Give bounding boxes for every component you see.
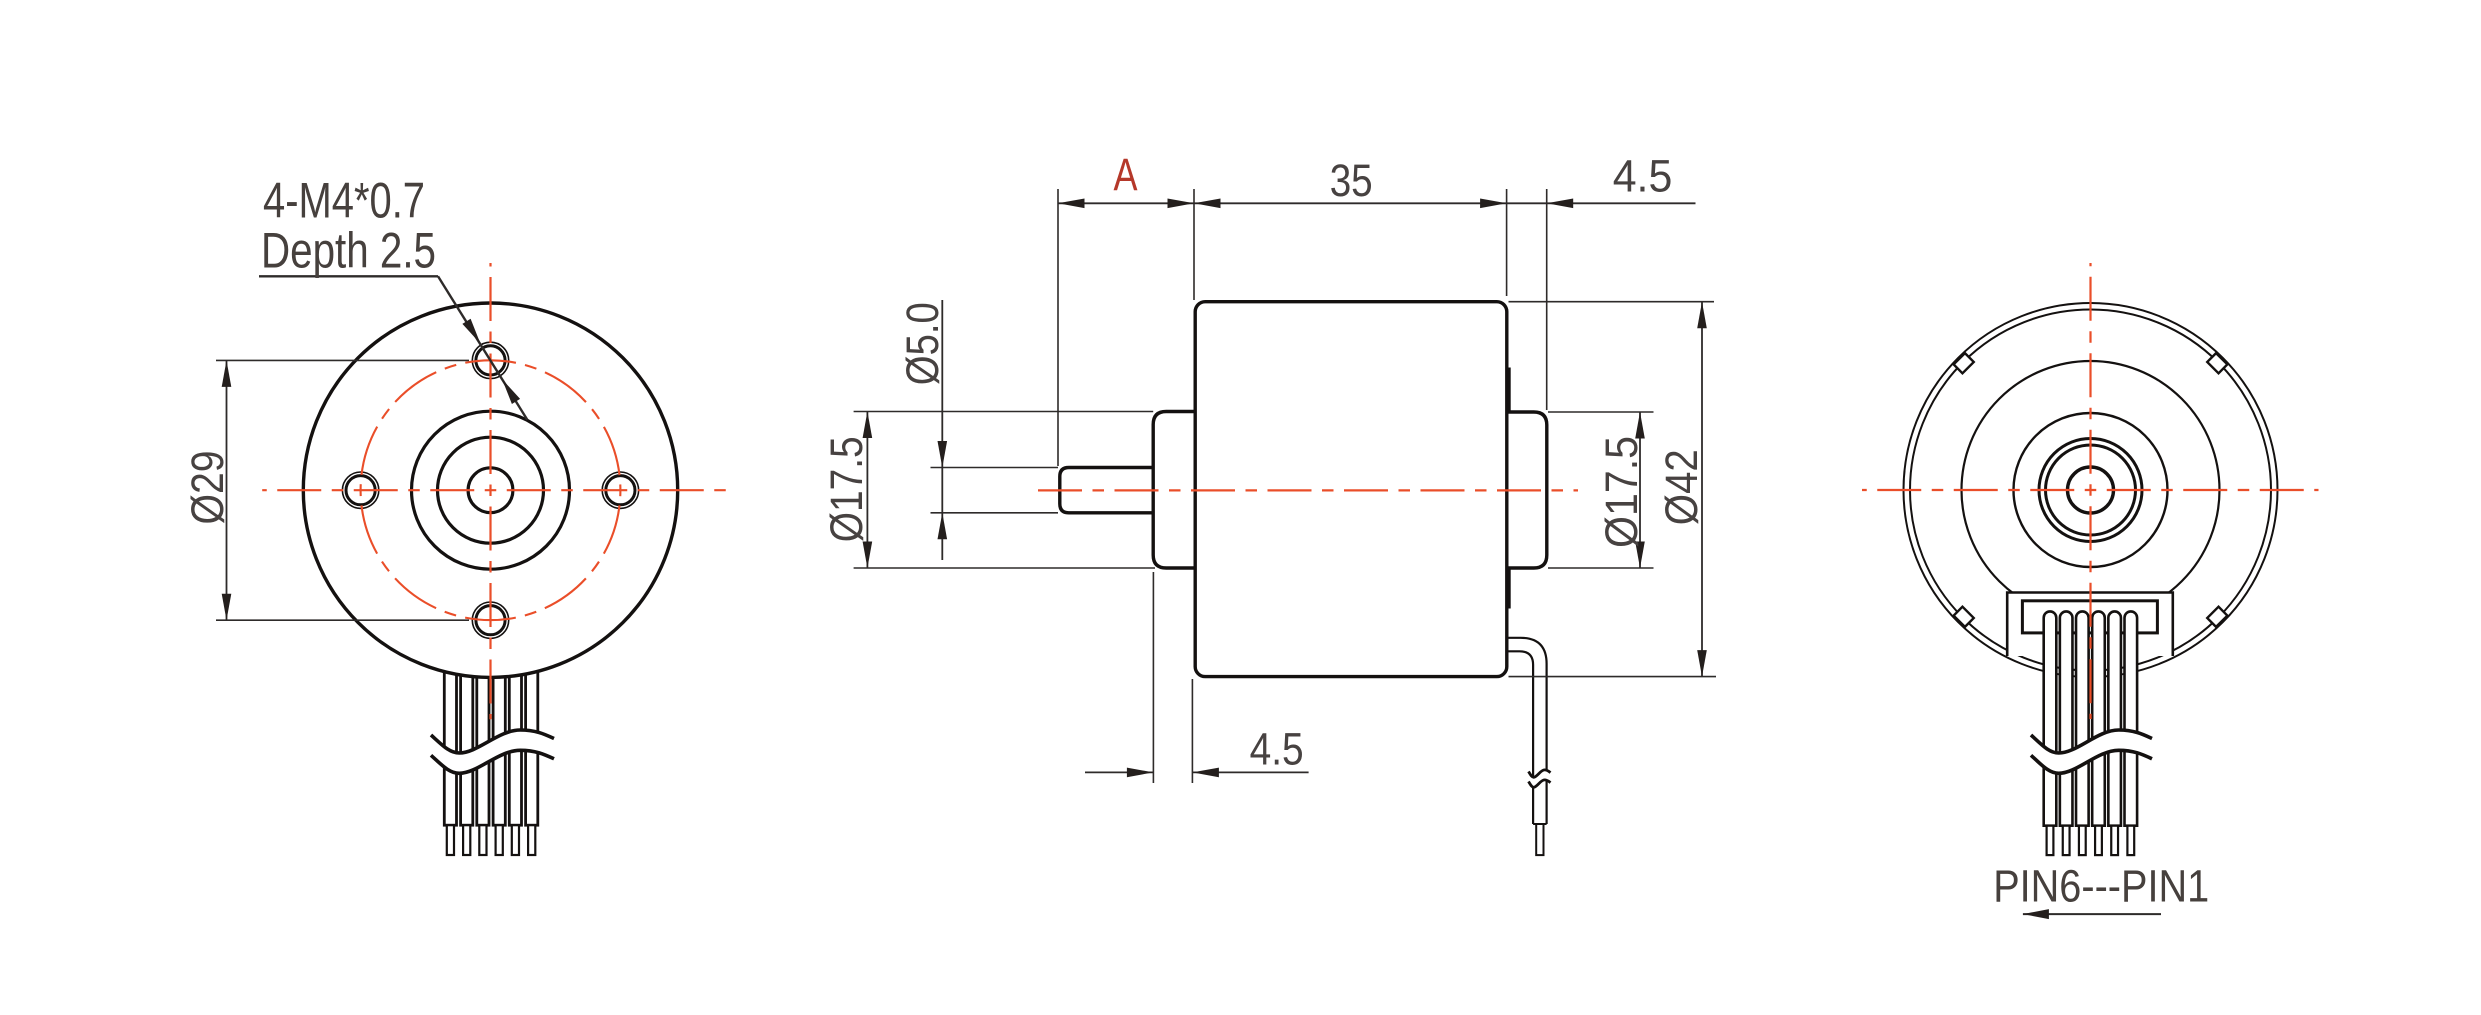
svg-text:Depth 2.5: Depth 2.5 xyxy=(261,223,436,279)
svg-text:Ø17.5: Ø17.5 xyxy=(821,436,872,542)
svg-text:Ø17.5: Ø17.5 xyxy=(1596,436,1647,548)
svg-text:PIN6---PIN1: PIN6---PIN1 xyxy=(1993,861,2209,912)
svg-text:4-M4*0.7: 4-M4*0.7 xyxy=(263,172,425,228)
svg-text:Ø42: Ø42 xyxy=(1656,449,1707,525)
svg-text:4.5: 4.5 xyxy=(1250,724,1304,775)
svg-text:35: 35 xyxy=(1330,155,1373,206)
svg-text:Ø29: Ø29 xyxy=(182,451,233,525)
svg-text:Ø5.0: Ø5.0 xyxy=(897,302,948,385)
svg-text:A: A xyxy=(1114,149,1138,200)
svg-text:4.5: 4.5 xyxy=(1613,151,1673,202)
